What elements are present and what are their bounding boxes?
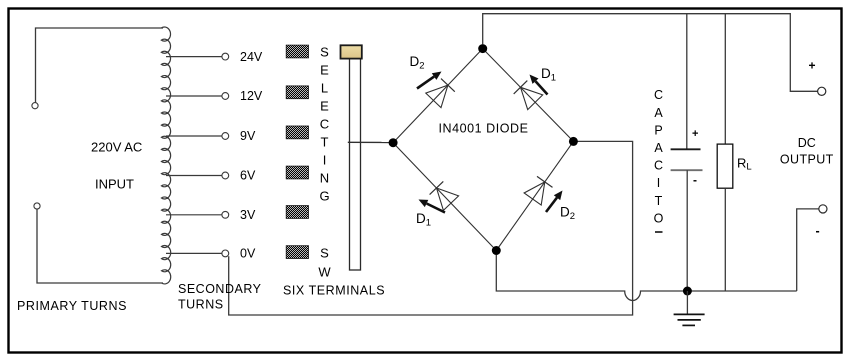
svg-text:G: G [319, 189, 329, 204]
svg-text:RL: RL [737, 156, 752, 173]
svg-text:S: S [320, 45, 329, 60]
svg-text:E: E [320, 99, 329, 114]
svg-text:220V AC: 220V AC [91, 140, 142, 155]
svg-text:12V: 12V [240, 89, 263, 103]
svg-text:T: T [655, 194, 663, 208]
svg-text:PRIMARY TURNS: PRIMARY TURNS [17, 299, 127, 313]
svg-text:6V: 6V [240, 169, 256, 183]
svg-text:-: - [816, 224, 820, 238]
svg-text:L: L [321, 81, 328, 96]
svg-text:W: W [318, 264, 331, 279]
svg-text:T: T [321, 135, 329, 150]
svg-text:E: E [320, 63, 329, 78]
svg-text:A: A [654, 106, 663, 120]
svg-text:A: A [654, 141, 663, 155]
svg-text:S: S [320, 246, 329, 261]
svg-text:SIX TERMINALS: SIX TERMINALS [283, 284, 385, 298]
svg-text:I: I [657, 176, 660, 190]
svg-text:24V: 24V [240, 50, 263, 64]
svg-text:C: C [320, 117, 329, 132]
svg-text:P: P [654, 123, 662, 137]
svg-text:+: + [809, 59, 816, 73]
svg-text:O: O [654, 211, 664, 225]
svg-text:IN4001 DIODE: IN4001 DIODE [439, 122, 529, 136]
svg-text:D2: D2 [410, 54, 425, 71]
svg-text:C: C [654, 159, 663, 173]
svg-text:C: C [654, 88, 663, 102]
svg-text:TURNS: TURNS [178, 298, 224, 312]
svg-text:D1: D1 [416, 211, 431, 228]
svg-text:I: I [323, 153, 327, 168]
svg-text:9V: 9V [240, 129, 256, 143]
svg-text:DC: DC [798, 136, 816, 150]
svg-text:INPUT: INPUT [95, 177, 134, 192]
svg-text:N: N [320, 171, 329, 186]
svg-text:SECONDARY: SECONDARY [178, 282, 262, 296]
svg-text:-: - [693, 173, 697, 187]
svg-text:3V: 3V [240, 208, 256, 222]
svg-text:OUTPUT: OUTPUT [780, 153, 834, 167]
svg-text:+: + [692, 128, 698, 140]
svg-text:D1: D1 [541, 66, 556, 83]
svg-text:D2: D2 [560, 205, 575, 222]
svg-text:0V: 0V [240, 247, 256, 261]
